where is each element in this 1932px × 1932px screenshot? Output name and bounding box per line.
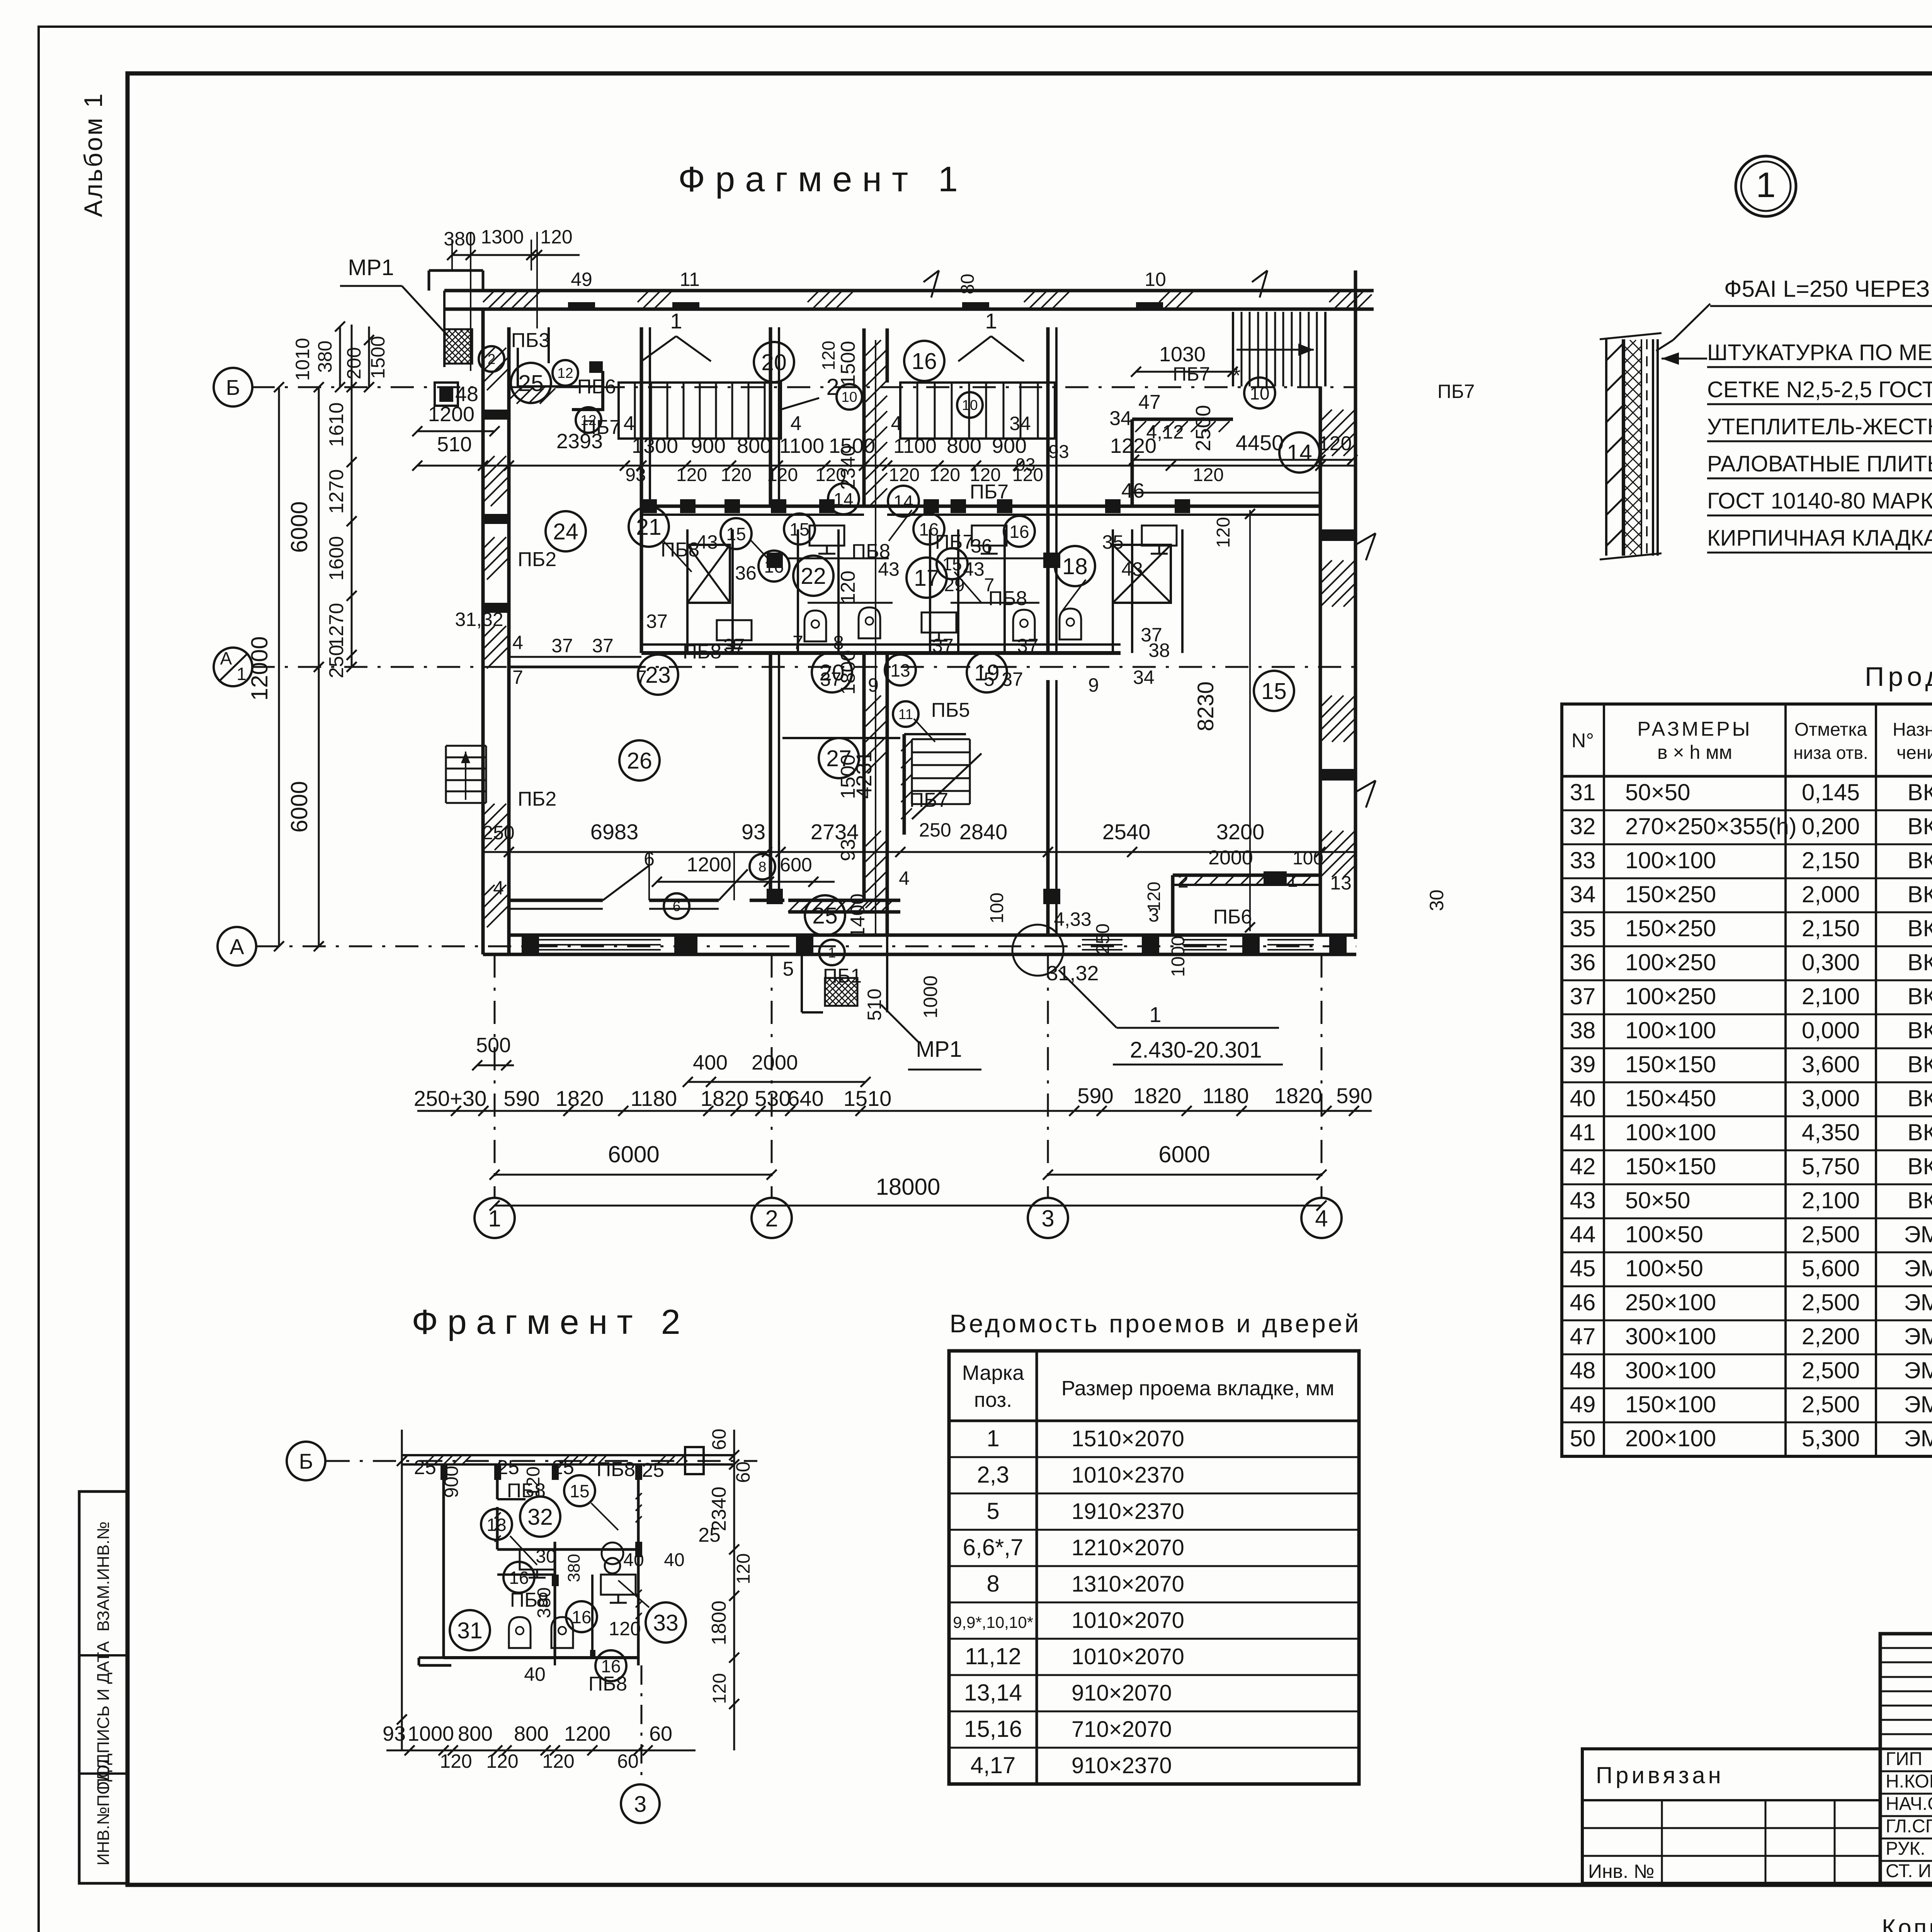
svg-text:910×2070: 910×2070 (1071, 1680, 1172, 1706)
svg-text:ПБ2: ПБ2 (518, 548, 556, 571)
svg-text:1: 1 (1287, 869, 1298, 891)
f1 room number circles (511, 363, 551, 403)
svg-text:1010×2070: 1010×2070 (1071, 1644, 1184, 1669)
svg-text:1030: 1030 (1159, 343, 1206, 366)
svg-text:35: 35 (1570, 915, 1596, 941)
svg-text:120: 120 (609, 1618, 641, 1639)
svg-text:2,000: 2,000 (1802, 881, 1860, 907)
svg-text:49: 49 (1570, 1391, 1596, 1417)
svg-text:ВК: ВК (1908, 847, 1932, 873)
svg-text:27: 27 (826, 746, 852, 771)
svg-text:380: 380 (565, 1554, 583, 1582)
svg-text:9: 9 (868, 674, 879, 696)
f1 dim row 1300 900 800 1100 (509, 465, 1355, 467)
svg-text:ПБ8: ПБ8 (588, 1673, 627, 1695)
svg-text:2: 2 (765, 1206, 778, 1231)
svg-text:530: 530 (755, 1086, 791, 1111)
f1 stair 2 treads (900, 383, 1055, 439)
svg-text:ПБ7: ПБ7 (1173, 363, 1210, 385)
svg-text:ВК: ВК (1908, 813, 1932, 839)
title block signature rows (1880, 1770, 1932, 1772)
title block left box (1582, 1749, 1880, 1883)
svg-text:40: 40 (1570, 1085, 1596, 1111)
svg-text:1: 1 (670, 309, 682, 333)
svg-text:120: 120 (709, 1673, 730, 1704)
svg-text:120: 120 (721, 465, 752, 485)
f1 dim chain 12000 (318, 387, 320, 946)
svg-text:37: 37 (1570, 983, 1596, 1009)
svg-text:380: 380 (314, 340, 336, 372)
f1 axis circle 1 (474, 1198, 515, 1238)
svg-text:ПБ1: ПБ1 (823, 965, 862, 987)
svg-text:3,000: 3,000 (1802, 1085, 1860, 1111)
svg-text:39: 39 (1570, 1051, 1596, 1077)
svg-text:590: 590 (1077, 1083, 1113, 1108)
svg-text:ВК: ВК (1908, 1119, 1932, 1145)
svg-text:8: 8 (833, 632, 844, 653)
svg-text:УТЕПЛИТЕЛЬ-ЖЕСТКИЕ МИНЕ-: УТЕПЛИТЕЛЬ-ЖЕСТКИЕ МИНЕ- (1707, 414, 1932, 439)
svg-text:Копировал Завьялова: Копировал Завьялова (1882, 1915, 1932, 1932)
svg-text:47: 47 (1138, 391, 1161, 413)
left stamp column (79, 1492, 128, 1883)
svg-text:93: 93 (837, 839, 859, 861)
svg-text:36: 36 (971, 535, 992, 557)
f2 fixtures (520, 1549, 554, 1570)
f2 right dim column (733, 1430, 735, 1750)
svg-text:1800: 1800 (708, 1600, 730, 1645)
f1 right exterior wall (1319, 386, 1322, 935)
svg-text:25: 25 (414, 1456, 436, 1479)
svg-text:150×450: 150×450 (1625, 1085, 1716, 1111)
svg-text:60: 60 (732, 1461, 754, 1483)
svg-text:46: 46 (1570, 1289, 1596, 1315)
svg-text:0,300: 0,300 (1802, 949, 1860, 975)
svg-text:2,200: 2,200 (1802, 1323, 1860, 1349)
svg-text:2,3: 2,3 (977, 1462, 1009, 1488)
svg-text:11: 11 (898, 706, 913, 722)
svg-text:40: 40 (524, 1663, 546, 1685)
svg-text:150×150: 150×150 (1625, 1153, 1716, 1179)
svg-text:Продолжение: Продолжение (1865, 662, 1932, 692)
svg-text:2,500: 2,500 (1802, 1221, 1860, 1247)
svg-text:ПБ7: ПБ7 (582, 416, 621, 439)
f1 axis circle 4 (1301, 1198, 1342, 1238)
svg-text:ШТУКАТУРКА ПО МЕТАЛЛИЧЕСКОЙ: ШТУКАТУРКА ПО МЕТАЛЛИЧЕСКОЙ (1707, 340, 1932, 365)
svg-text:14: 14 (893, 492, 913, 512)
f1 bottom dim 18000 (495, 1205, 1321, 1207)
svg-text:чение: чение (1896, 743, 1932, 763)
f1 central dim column (875, 340, 876, 935)
svg-text:ПБ7: ПБ7 (935, 531, 974, 553)
svg-text:2: 2 (488, 351, 496, 367)
svg-text:1100: 1100 (893, 435, 937, 457)
svg-text:ЭМ: ЭМ (1904, 1391, 1932, 1417)
svg-text:150×250: 150×250 (1625, 881, 1716, 907)
svg-text:1300: 1300 (632, 434, 678, 457)
svg-text:Фрагмент 1: Фрагмент 1 (678, 160, 968, 199)
svg-text:ВК: ВК (1908, 983, 1932, 1009)
svg-text:22: 22 (801, 563, 826, 589)
svg-text:1200: 1200 (687, 854, 731, 876)
svg-text:ВК: ВК (1908, 1085, 1932, 1111)
svg-text:38: 38 (1148, 639, 1170, 661)
svg-text:250+30: 250+30 (414, 1086, 486, 1111)
svg-text:6: 6 (673, 898, 681, 914)
svg-text:30: 30 (536, 1546, 556, 1567)
detail wall section (1605, 339, 1607, 556)
svg-text:80: 80 (957, 274, 978, 294)
svg-text:ВК: ВК (1908, 1153, 1932, 1179)
svg-text:0,145: 0,145 (1802, 779, 1860, 805)
svg-text:200×100: 200×100 (1625, 1425, 1716, 1451)
f1 small stair left (446, 745, 486, 747)
svg-text:500: 500 (476, 1034, 511, 1057)
svg-text:40: 40 (664, 1550, 684, 1570)
svg-text:ПБ6: ПБ6 (1213, 906, 1252, 928)
svg-text:ВК: ВК (1908, 915, 1932, 941)
f1 bottom exterior wall (483, 953, 1356, 956)
svg-text:250×100: 250×100 (1625, 1289, 1716, 1315)
svg-text:ЭМ: ЭМ (1904, 1255, 1932, 1281)
svg-text:46: 46 (1121, 479, 1145, 502)
svg-text:32: 32 (1570, 813, 1596, 839)
svg-text:ВК: ВК (1908, 1187, 1932, 1213)
svg-text:93: 93 (625, 465, 646, 485)
svg-text:2.430-20.301: 2.430-20.301 (1130, 1037, 1262, 1063)
svg-text:5,600: 5,600 (1802, 1255, 1860, 1281)
f1 bottom dims 6000 (495, 1174, 772, 1176)
svg-text:1200: 1200 (428, 403, 474, 426)
svg-text:30: 30 (1426, 889, 1447, 911)
svg-text:ПБ8: ПБ8 (683, 641, 721, 663)
svg-text:7: 7 (512, 667, 523, 688)
svg-text:3,600: 3,600 (1802, 1051, 1860, 1077)
f1 dim 1200 (417, 430, 495, 432)
svg-text:43: 43 (963, 558, 985, 580)
svg-text:36: 36 (735, 562, 757, 584)
svg-text:15,16: 15,16 (964, 1716, 1022, 1742)
svg-text:1100: 1100 (779, 434, 824, 457)
title block narrow rows (1880, 1647, 1932, 1649)
svg-text:2,500: 2,500 (1802, 1357, 1860, 1383)
svg-text:13: 13 (486, 1515, 506, 1535)
svg-text:120: 120 (523, 1466, 544, 1497)
svg-text:120: 120 (542, 1750, 574, 1772)
svg-text:5: 5 (984, 668, 995, 690)
svg-text:24: 24 (553, 519, 578, 544)
svg-text:120: 120 (837, 571, 859, 604)
svg-text:31: 31 (457, 1618, 483, 1643)
svg-text:А: А (220, 648, 232, 668)
svg-text:590: 590 (503, 1086, 539, 1111)
f1 bottom dims row1 (417, 1110, 1372, 1112)
svg-text:1910×2370: 1910×2370 (1071, 1499, 1184, 1524)
svg-text:40: 40 (623, 1550, 644, 1570)
svg-text:36: 36 (1570, 949, 1596, 975)
f1 wall axis2 (769, 327, 772, 506)
f1 axis circle 2 (752, 1198, 792, 1238)
svg-text:ЭМ: ЭМ (1904, 1221, 1932, 1247)
table doors grid (949, 1351, 1359, 1784)
svg-text:16: 16 (764, 556, 784, 577)
svg-text:120: 120 (1213, 517, 1234, 548)
svg-text:3: 3 (634, 1792, 646, 1817)
f2 top wall (402, 1454, 734, 1456)
svg-text:50×50: 50×50 (1625, 1187, 1690, 1213)
svg-text:Размер проема вкладке, мм: Размер проема вкладке, мм (1061, 1377, 1335, 1400)
svg-text:ВЗАМ.ИНВ.№: ВЗАМ.ИНВ.№ (94, 1522, 113, 1632)
svg-text:1300: 1300 (481, 226, 524, 248)
svg-text:16: 16 (912, 349, 937, 374)
svg-text:2,500: 2,500 (1802, 1391, 1860, 1417)
svg-text:ПБ2: ПБ2 (518, 788, 556, 810)
svg-text:16: 16 (1009, 522, 1029, 542)
svg-text:37: 37 (551, 635, 573, 656)
svg-text:150×100: 150×100 (1625, 1391, 1716, 1417)
svg-text:ПБ6: ПБ6 (577, 376, 616, 398)
svg-text:3: 3 (1041, 1206, 1054, 1231)
svg-text:6000: 6000 (608, 1141, 659, 1167)
svg-text:49: 49 (571, 269, 592, 290)
svg-text:7: 7 (984, 575, 995, 595)
svg-text:ВК: ВК (1908, 779, 1932, 805)
svg-text:6000: 6000 (1158, 1141, 1210, 1167)
svg-text:9,9*,10,10*: 9,9*,10,10* (953, 1613, 1033, 1631)
svg-text:11,12: 11,12 (965, 1643, 1021, 1669)
svg-text:100×100: 100×100 (1625, 1119, 1716, 1145)
svg-text:5,300: 5,300 (1802, 1425, 1860, 1451)
svg-text:800: 800 (458, 1722, 493, 1745)
svg-text:4,350: 4,350 (1802, 1119, 1860, 1145)
svg-text:120: 120 (440, 1750, 472, 1772)
svg-text:31: 31 (1570, 779, 1596, 805)
svg-text:13,14: 13,14 (964, 1680, 1022, 1706)
svg-text:поз.: поз. (974, 1388, 1012, 1412)
svg-text:ЭМ: ЭМ (1904, 1425, 1932, 1451)
f1 upper-left walls (517, 348, 519, 386)
svg-text:1820: 1820 (556, 1086, 604, 1111)
svg-text:0,000: 0,000 (1802, 1017, 1860, 1043)
svg-text:2,150: 2,150 (1802, 915, 1860, 941)
svg-text:*: * (1232, 364, 1240, 387)
svg-text:Назна-: Назна- (1893, 719, 1932, 740)
svg-text:120: 120 (767, 465, 798, 485)
svg-text:А: А (230, 934, 244, 959)
svg-text:93: 93 (383, 1722, 406, 1745)
svg-text:120: 120 (676, 465, 707, 485)
svg-text:1210×2070: 1210×2070 (1071, 1535, 1184, 1560)
svg-text:120: 120 (733, 1553, 754, 1584)
svg-text:4,17: 4,17 (971, 1752, 1016, 1778)
svg-text:48: 48 (455, 383, 478, 406)
svg-text:8: 8 (986, 1571, 999, 1597)
svg-text:44: 44 (1570, 1221, 1596, 1247)
svg-text:3200: 3200 (1216, 820, 1265, 844)
svg-text:1010: 1010 (292, 338, 313, 381)
svg-text:6000: 6000 (286, 781, 312, 832)
svg-text:45: 45 (1570, 1255, 1596, 1281)
svg-text:6983: 6983 (590, 820, 639, 844)
svg-text:ЭМ: ЭМ (1904, 1357, 1932, 1383)
svg-text:Н.КОНТР.: Н.КОНТР. (1886, 1771, 1932, 1792)
svg-text:150×150: 150×150 (1625, 1051, 1716, 1077)
svg-text:4231: 4231 (852, 751, 876, 799)
svg-text:13: 13 (1330, 872, 1352, 894)
svg-text:ПБ5: ПБ5 (931, 699, 970, 721)
svg-text:Отметка: Отметка (1794, 719, 1867, 740)
svg-text:200: 200 (343, 347, 365, 379)
svg-text:10: 10 (841, 389, 857, 405)
svg-text:2,100: 2,100 (1802, 983, 1860, 1009)
svg-text:4: 4 (624, 412, 635, 435)
svg-text:43: 43 (1570, 1187, 1596, 1213)
svg-text:Привязан: Привязан (1596, 1762, 1724, 1788)
svg-text:15: 15 (1261, 679, 1287, 704)
svg-text:120: 120 (486, 1750, 518, 1772)
svg-text:41: 41 (1570, 1119, 1596, 1145)
svg-text:Б: Б (226, 375, 240, 400)
svg-text:100×100: 100×100 (1625, 1017, 1716, 1043)
svg-text:25: 25 (552, 1456, 574, 1479)
svg-text:100×250: 100×250 (1625, 983, 1716, 1009)
svg-text:ВК: ВК (1908, 881, 1932, 907)
svg-text:МР1: МР1 (916, 1037, 962, 1062)
svg-text:34: 34 (1109, 407, 1132, 430)
svg-text:4,12: 4,12 (1146, 421, 1184, 443)
svg-text:100: 100 (987, 893, 1007, 923)
svg-text:2000: 2000 (752, 1051, 798, 1074)
svg-text:60: 60 (649, 1722, 672, 1745)
svg-text:7: 7 (793, 632, 803, 653)
svg-text:2000: 2000 (1208, 847, 1253, 869)
f1 axis line A (256, 946, 1356, 947)
f1 entrance vestibule (801, 935, 803, 1012)
svg-text:400: 400 (693, 1051, 728, 1074)
f1 room14 wall (1131, 419, 1134, 506)
detail marker circle 1 (1736, 156, 1796, 216)
svg-text:1: 1 (1756, 165, 1776, 205)
svg-text:ПБ3: ПБ3 (511, 329, 550, 352)
svg-text:0,200: 0,200 (1802, 813, 1860, 839)
svg-text:1180: 1180 (631, 1086, 677, 1111)
svg-text:15: 15 (942, 554, 962, 574)
svg-text:590: 590 (1336, 1083, 1372, 1108)
f1 sinks and wc (810, 526, 844, 546)
svg-text:270×250×355(h): 270×250×355(h) (1625, 813, 1797, 839)
svg-text:510: 510 (437, 433, 472, 456)
f1 porch bump above wall (428, 270, 430, 291)
f2 bottom dims (386, 1750, 696, 1752)
svg-text:1: 1 (986, 1425, 999, 1451)
svg-text:Марка: Марка (962, 1361, 1024, 1384)
svg-text:34: 34 (1009, 413, 1031, 434)
svg-text:2540: 2540 (1102, 820, 1151, 844)
svg-text:1610: 1610 (325, 402, 348, 447)
svg-text:МР1: МР1 (348, 255, 394, 280)
f1 stairwell top-right treads (1232, 312, 1234, 386)
svg-text:1000: 1000 (920, 975, 941, 1018)
svg-text:25: 25 (518, 371, 544, 396)
f1 left exterior wall (481, 309, 485, 954)
svg-text:43: 43 (1121, 558, 1143, 580)
svg-text:25: 25 (497, 1456, 519, 1479)
f1 bottom right room (1173, 874, 1320, 877)
svg-text:1820: 1820 (1133, 1083, 1182, 1108)
svg-text:1180: 1180 (1202, 1083, 1249, 1108)
svg-text:ВК: ВК (1908, 1051, 1932, 1077)
svg-text:1500: 1500 (837, 341, 859, 386)
svg-text:ПБ7: ПБ7 (1437, 381, 1475, 402)
svg-text:120: 120 (929, 465, 960, 485)
svg-text:1820: 1820 (1274, 1083, 1323, 1108)
svg-text:33: 33 (653, 1610, 679, 1636)
svg-text:1510: 1510 (844, 1086, 892, 1111)
svg-text:300×100: 300×100 (1625, 1323, 1716, 1349)
svg-text:4: 4 (891, 412, 902, 435)
svg-text:ГОСТ 10140-80 МАРКИ 200-60: ГОСТ 10140-80 МАРКИ 200-60 (1707, 488, 1932, 514)
svg-text:20: 20 (761, 350, 787, 375)
svg-text:16: 16 (571, 1607, 591, 1627)
svg-text:50: 50 (1570, 1425, 1596, 1451)
svg-text:10: 10 (1250, 383, 1269, 403)
f1 bottom dims 400 2000 (688, 1081, 866, 1083)
svg-text:низа отв.: низа отв. (1793, 743, 1868, 763)
svg-text:60: 60 (708, 1429, 730, 1450)
f1 axis line A1 (252, 666, 1356, 668)
svg-text:100: 100 (1293, 848, 1323, 869)
svg-text:2340: 2340 (708, 1486, 730, 1531)
svg-text:1: 1 (828, 945, 836, 961)
svg-text:4450: 4450 (1236, 430, 1284, 455)
svg-text:710×2070: 710×2070 (1071, 1717, 1172, 1742)
f2 left dim line (401, 1430, 403, 1750)
svg-text:Б: Б (299, 1449, 313, 1473)
svg-text:5: 5 (986, 1498, 999, 1524)
svg-text:4: 4 (493, 877, 504, 899)
svg-text:100×250: 100×250 (1625, 949, 1716, 975)
svg-text:10: 10 (962, 397, 978, 413)
svg-text:250: 250 (919, 819, 951, 841)
f1 doors small ticks bottom (733, 852, 735, 900)
svg-text:25: 25 (812, 903, 838, 929)
f2 axis circle 3 (641, 1665, 643, 1784)
svg-text:35: 35 (1102, 531, 1124, 553)
table continuation grid (1562, 704, 1932, 1456)
svg-text:120: 120 (1144, 882, 1164, 912)
svg-text:1: 1 (1149, 1002, 1161, 1027)
svg-text:250: 250 (325, 645, 348, 679)
svg-text:1400: 1400 (847, 893, 869, 938)
svg-text:ЭМ: ЭМ (1904, 1323, 1932, 1349)
f1 porch top-left (445, 329, 451, 335)
f1 axis circle B (214, 368, 252, 406)
svg-text:100×50: 100×50 (1625, 1255, 1703, 1281)
svg-text:250: 250 (482, 822, 514, 844)
svg-text:2,500: 2,500 (1802, 1289, 1860, 1315)
f1 axis circle 3 (1028, 1198, 1068, 1238)
detail leader arrows (1673, 304, 1710, 340)
f1 axis verticals (494, 954, 496, 1197)
f1 top dim 380 1300 120 (452, 254, 580, 256)
svg-text:48: 48 (1570, 1357, 1596, 1383)
f1 corridor bottom walls (509, 899, 603, 902)
f1 interior stair bottom (912, 738, 970, 740)
svg-text:РАЗМЕРЫ: РАЗМЕРЫ (1637, 718, 1752, 740)
svg-text:15: 15 (726, 524, 746, 544)
svg-text:250: 250 (1093, 923, 1113, 954)
svg-text:1270: 1270 (325, 469, 348, 514)
f1 corridor spine walls (862, 328, 866, 506)
